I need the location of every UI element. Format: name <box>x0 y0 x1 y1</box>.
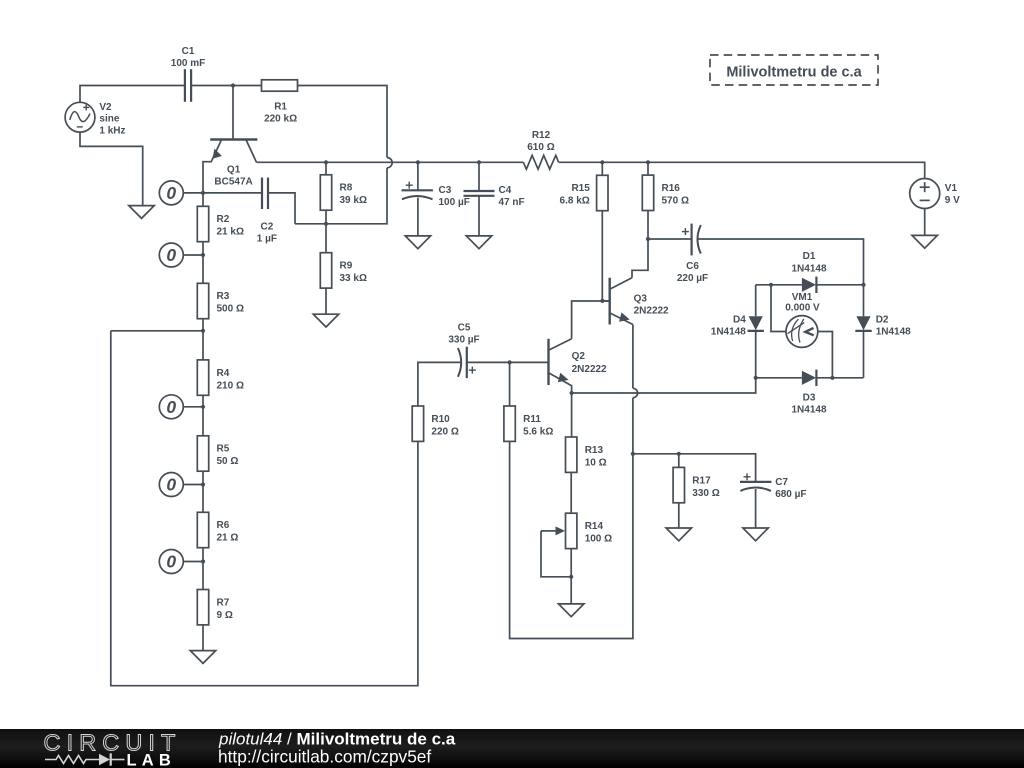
svg-text:0.000 V: 0.000 V <box>785 303 820 314</box>
wire V2 bottom to ground <box>80 132 143 206</box>
svg-text:1N4148: 1N4148 <box>791 405 826 416</box>
ground under C4 <box>466 236 491 249</box>
resistor R11 (5.6 k&#937;) <box>504 406 553 441</box>
capacitor C2 (1 &#181;F) <box>257 178 277 245</box>
wire R16 to C6 node <box>647 211 649 240</box>
wire hop on Q3 emitter line <box>633 388 638 397</box>
wire D3 row right <box>816 377 863 379</box>
wire VM1 right branch <box>818 332 833 378</box>
svg-text:R17: R17 <box>692 475 711 486</box>
wire D4 branch <box>755 285 757 378</box>
svg-text:R6: R6 <box>217 520 230 531</box>
wire Q2 emitter node to R13 <box>571 393 573 437</box>
svg-text:R12: R12 <box>532 130 551 141</box>
wire C7 to ground <box>755 489 757 528</box>
wire Q2 emitter row to diode bridge <box>572 378 756 393</box>
svg-text:0: 0 <box>166 245 176 265</box>
wire R14 to ground <box>570 549 572 604</box>
svg-text:R14: R14 <box>585 521 604 532</box>
svg-text:220 Ω: 220 Ω <box>431 426 458 437</box>
svg-text:C1: C1 <box>182 46 195 57</box>
svg-text:VM1: VM1 <box>792 292 813 303</box>
svg-text:C2: C2 <box>261 222 274 233</box>
svg-text:R4: R4 <box>217 368 230 379</box>
wire D2 branch <box>863 285 865 378</box>
wire R9 top <box>325 224 327 253</box>
wire R17 to ground <box>678 503 680 528</box>
wire C7 tap on emitter line <box>633 454 756 482</box>
svg-text:D4: D4 <box>733 314 746 325</box>
ground under R7 <box>190 651 215 664</box>
svg-text:1 kHz: 1 kHz <box>99 125 125 136</box>
wire main rail R12 to V1 <box>559 162 925 178</box>
wire C2 right to feedback rail <box>268 193 295 224</box>
diode D4 (1N4148) <box>711 314 764 337</box>
wire C5 left to R10 <box>418 362 461 406</box>
svg-text:21 Ω: 21 Ω <box>217 533 239 544</box>
svg-text:Q2: Q2 <box>572 351 586 362</box>
resistor R3 (500 &#937;) <box>197 283 244 318</box>
capacitor C4 (47 nF) <box>464 185 525 208</box>
resistor R15 (6.8 k&#937;) <box>560 175 608 210</box>
wire R16 top <box>647 162 649 175</box>
wire main rail Q1 collector to R12 <box>257 161 524 163</box>
svg-text:0: 0 <box>166 183 176 203</box>
wire R14 wiper <box>541 531 571 577</box>
resistor R9 (33 k&#937;) <box>320 253 367 288</box>
resistor R8 (39 k&#937;) <box>320 175 367 210</box>
wire R1 right to feedback via hop <box>298 86 388 158</box>
diode D3 (1N4148) <box>791 370 826 416</box>
wire C6 node to Q3 collector <box>632 239 648 278</box>
wire R15 to Q3 base node <box>601 211 603 301</box>
svg-text:V1: V1 <box>945 183 958 194</box>
resistor R7 (9 &#937;) <box>197 590 233 625</box>
capacitor C7 (680 &#181;F, polarized) <box>740 473 807 500</box>
svg-text:C7: C7 <box>775 477 788 488</box>
wire VM1 left branch <box>771 285 786 332</box>
capacitor C5 (330 &#181;F, polarized) <box>448 322 479 378</box>
svg-text:R5: R5 <box>217 444 230 455</box>
resistor R13 (10 &#937;) <box>566 437 607 472</box>
wire C3 top <box>417 162 419 190</box>
wire R4 to flag3 to R5 <box>202 395 204 436</box>
wire R6 to flag5 to R7 <box>202 548 204 590</box>
wire Q2 collector to Q3 base <box>572 301 610 339</box>
capacitor C3 (100 &#181;F, polarized) <box>402 182 470 209</box>
potentiometer R14 (100 &#937;) <box>541 513 612 548</box>
voltage source V1 (9 V) <box>910 179 960 209</box>
wire Q3 emitter upper <box>632 325 634 389</box>
transistor Q1 (BC547A) <box>203 140 257 193</box>
svg-text:330 Ω: 330 Ω <box>692 488 719 499</box>
svg-text:680 µF: 680 µF <box>775 489 806 500</box>
CircuitLab logo <box>44 730 182 768</box>
resistor R1 (220 k&#937;) <box>262 80 298 125</box>
footer title text <box>218 730 456 767</box>
resistor R4 (210 &#937;) <box>197 360 244 395</box>
wire V2 top to C1 <box>80 86 184 103</box>
wire R2 top <box>202 193 204 206</box>
svg-text:1N4148: 1N4148 <box>791 263 826 274</box>
wire hop over main rail <box>387 158 392 168</box>
wire R13 to R14 <box>570 472 572 513</box>
wire hop to bottom feedback rail <box>295 168 387 224</box>
svg-text:C3: C3 <box>439 185 452 196</box>
wire C3 to ground <box>417 198 419 236</box>
wire R8 bottom <box>325 210 327 224</box>
svg-text:500 Ω: 500 Ω <box>217 304 244 315</box>
svg-text:C4: C4 <box>499 185 512 196</box>
wire big loop down and right to R10 <box>111 331 418 686</box>
wire loop junction left <box>111 330 203 332</box>
ground under R9 <box>313 314 338 327</box>
svg-text:1N4148: 1N4148 <box>876 327 911 338</box>
wire C6 node to plus plate <box>648 238 692 240</box>
net flag 0 (R4-R5 node) <box>159 395 203 419</box>
svg-text:1 µF: 1 µF <box>257 234 277 245</box>
wire flag1 row to C2 <box>203 192 262 194</box>
resistor R12 (610 &#937;) <box>523 130 558 169</box>
ground under C7 <box>743 528 768 541</box>
svg-text:100 mF: 100 mF <box>171 58 205 69</box>
wire C1 to node A <box>192 85 262 87</box>
capacitor C6 (220 &#181;F, polarized) <box>677 224 708 284</box>
wire R3 to loop junction to R4 <box>202 319 204 360</box>
svg-text:C5: C5 <box>458 322 471 333</box>
svg-text:9 Ω: 9 Ω <box>217 610 233 621</box>
svg-text:330 µF: 330 µF <box>448 334 479 345</box>
wire R17 top <box>678 454 680 468</box>
net flag 0 (R2-R3 node) <box>159 243 203 267</box>
resistor R10 (220 &#937;) <box>412 406 459 441</box>
svg-text:6.8 kΩ: 6.8 kΩ <box>560 196 590 207</box>
wire D1 row right <box>816 284 863 286</box>
resistor R6 (21 &#937;) <box>197 512 238 547</box>
diode D2 (1N4148) <box>855 314 911 337</box>
wire C4 top <box>478 162 480 191</box>
transistor Q2 (2N2222) <box>549 339 608 393</box>
ground under V2 <box>129 206 154 219</box>
svg-text:570 Ω: 570 Ω <box>662 196 689 207</box>
wire D1 row left <box>756 284 802 286</box>
svg-text:R8: R8 <box>340 183 353 194</box>
wire D3 row left <box>756 377 802 379</box>
wire V1 to ground <box>924 209 926 236</box>
svg-text:39 kΩ: 39 kΩ <box>340 195 367 206</box>
wire C6 to D1 right node <box>697 239 863 285</box>
svg-text:D1: D1 <box>803 251 816 262</box>
svg-text:D2: D2 <box>876 314 889 325</box>
svg-text:0: 0 <box>166 475 176 495</box>
title box Milivoltmetru de c.a <box>710 55 878 85</box>
svg-text:2N2222: 2N2222 <box>634 305 669 316</box>
svg-text:LAB: LAB <box>127 751 177 768</box>
net flag 0 (R6-R7 node) <box>159 550 203 574</box>
svg-text:10 Ω: 10 Ω <box>585 457 607 468</box>
diode D1 (1N4148) <box>791 251 826 293</box>
svg-text:610 Ω: 610 Ω <box>527 142 554 153</box>
svg-text:5.6 kΩ: 5.6 kΩ <box>523 426 553 437</box>
svg-text:BC547A: BC547A <box>214 176 252 187</box>
footer bar <box>0 729 1024 768</box>
svg-text:R16: R16 <box>662 183 681 194</box>
svg-text:Milivoltmetru de c.a: Milivoltmetru de c.a <box>726 64 862 80</box>
svg-text:100 Ω: 100 Ω <box>585 534 612 545</box>
svg-text:Q1: Q1 <box>227 164 241 175</box>
svg-text:R15: R15 <box>571 183 590 194</box>
transistor Q3 (2N2222) <box>610 278 669 325</box>
svg-text:R9: R9 <box>340 261 353 272</box>
svg-text:9 V: 9 V <box>945 195 960 206</box>
wire Q1 base <box>232 86 234 140</box>
voltmeter VM1 (0.000 V) <box>785 292 820 347</box>
svg-text:1N4148: 1N4148 <box>711 327 746 338</box>
svg-text:D3: D3 <box>803 392 816 403</box>
svg-text:21 kΩ: 21 kΩ <box>217 227 244 238</box>
svg-text:100 µF: 100 µF <box>439 197 470 208</box>
ground under V1 <box>912 235 937 248</box>
voltage source V2 (sine 1 kHz) <box>65 102 125 136</box>
resistor R16 (570 &#937;) <box>642 175 689 210</box>
svg-text:R2: R2 <box>217 214 230 225</box>
svg-text:C6: C6 <box>686 261 699 272</box>
wire C4 to ground <box>478 196 480 236</box>
svg-text:http://circuitlab.com/czpv5ef: http://circuitlab.com/czpv5ef <box>218 747 431 767</box>
ground under C3 <box>405 236 430 249</box>
net flag 0 (emitter node) <box>159 181 203 205</box>
wire R7 to ground <box>202 625 204 651</box>
svg-text:33 kΩ: 33 kΩ <box>340 273 367 284</box>
wire C5 right to Q2 base <box>467 361 549 363</box>
wire R5 to flag4 to R6 <box>202 471 204 512</box>
wire R11 top <box>509 362 511 406</box>
net flag 0 (R5-R6 node) <box>159 473 203 497</box>
svg-text:47 nF: 47 nF <box>499 197 525 208</box>
wire R2 to flag2 to R3 <box>202 242 204 284</box>
resistor R17 (330 &#937;) <box>673 467 720 502</box>
svg-text:V2: V2 <box>99 102 112 113</box>
wire R11 bottom loop to Q3 emitter <box>510 398 633 639</box>
wire Q3 base <box>602 300 609 302</box>
svg-text:50 Ω: 50 Ω <box>217 456 239 467</box>
wire R9 to ground <box>325 288 327 314</box>
svg-text:0: 0 <box>166 552 176 572</box>
ground under R14 <box>559 604 584 617</box>
capacitor C1 (100 mF) <box>171 46 205 102</box>
svg-text:R10: R10 <box>431 414 450 425</box>
svg-text:R7: R7 <box>217 597 230 608</box>
svg-text:R11: R11 <box>523 414 541 425</box>
svg-text:220 kΩ: 220 kΩ <box>264 113 297 124</box>
svg-text:R1: R1 <box>274 101 287 112</box>
ground under R17 <box>666 528 691 541</box>
svg-text:0: 0 <box>166 397 176 417</box>
svg-text:2N2222: 2N2222 <box>572 364 607 375</box>
svg-text:R3: R3 <box>217 291 230 302</box>
svg-text:sine: sine <box>99 114 119 125</box>
svg-text:R13: R13 <box>585 445 604 456</box>
resistor R5 (50 &#937;) <box>197 436 238 471</box>
wire R15 top <box>601 162 603 175</box>
svg-text:Q3: Q3 <box>634 294 648 305</box>
svg-text:220 µF: 220 µF <box>677 273 708 284</box>
wire R8 top <box>325 162 327 175</box>
resistor R2 (21 k&#937;) <box>197 206 244 241</box>
svg-text:210 Ω: 210 Ω <box>217 380 244 391</box>
junction node at C1/R1/Q1 base <box>231 83 235 87</box>
